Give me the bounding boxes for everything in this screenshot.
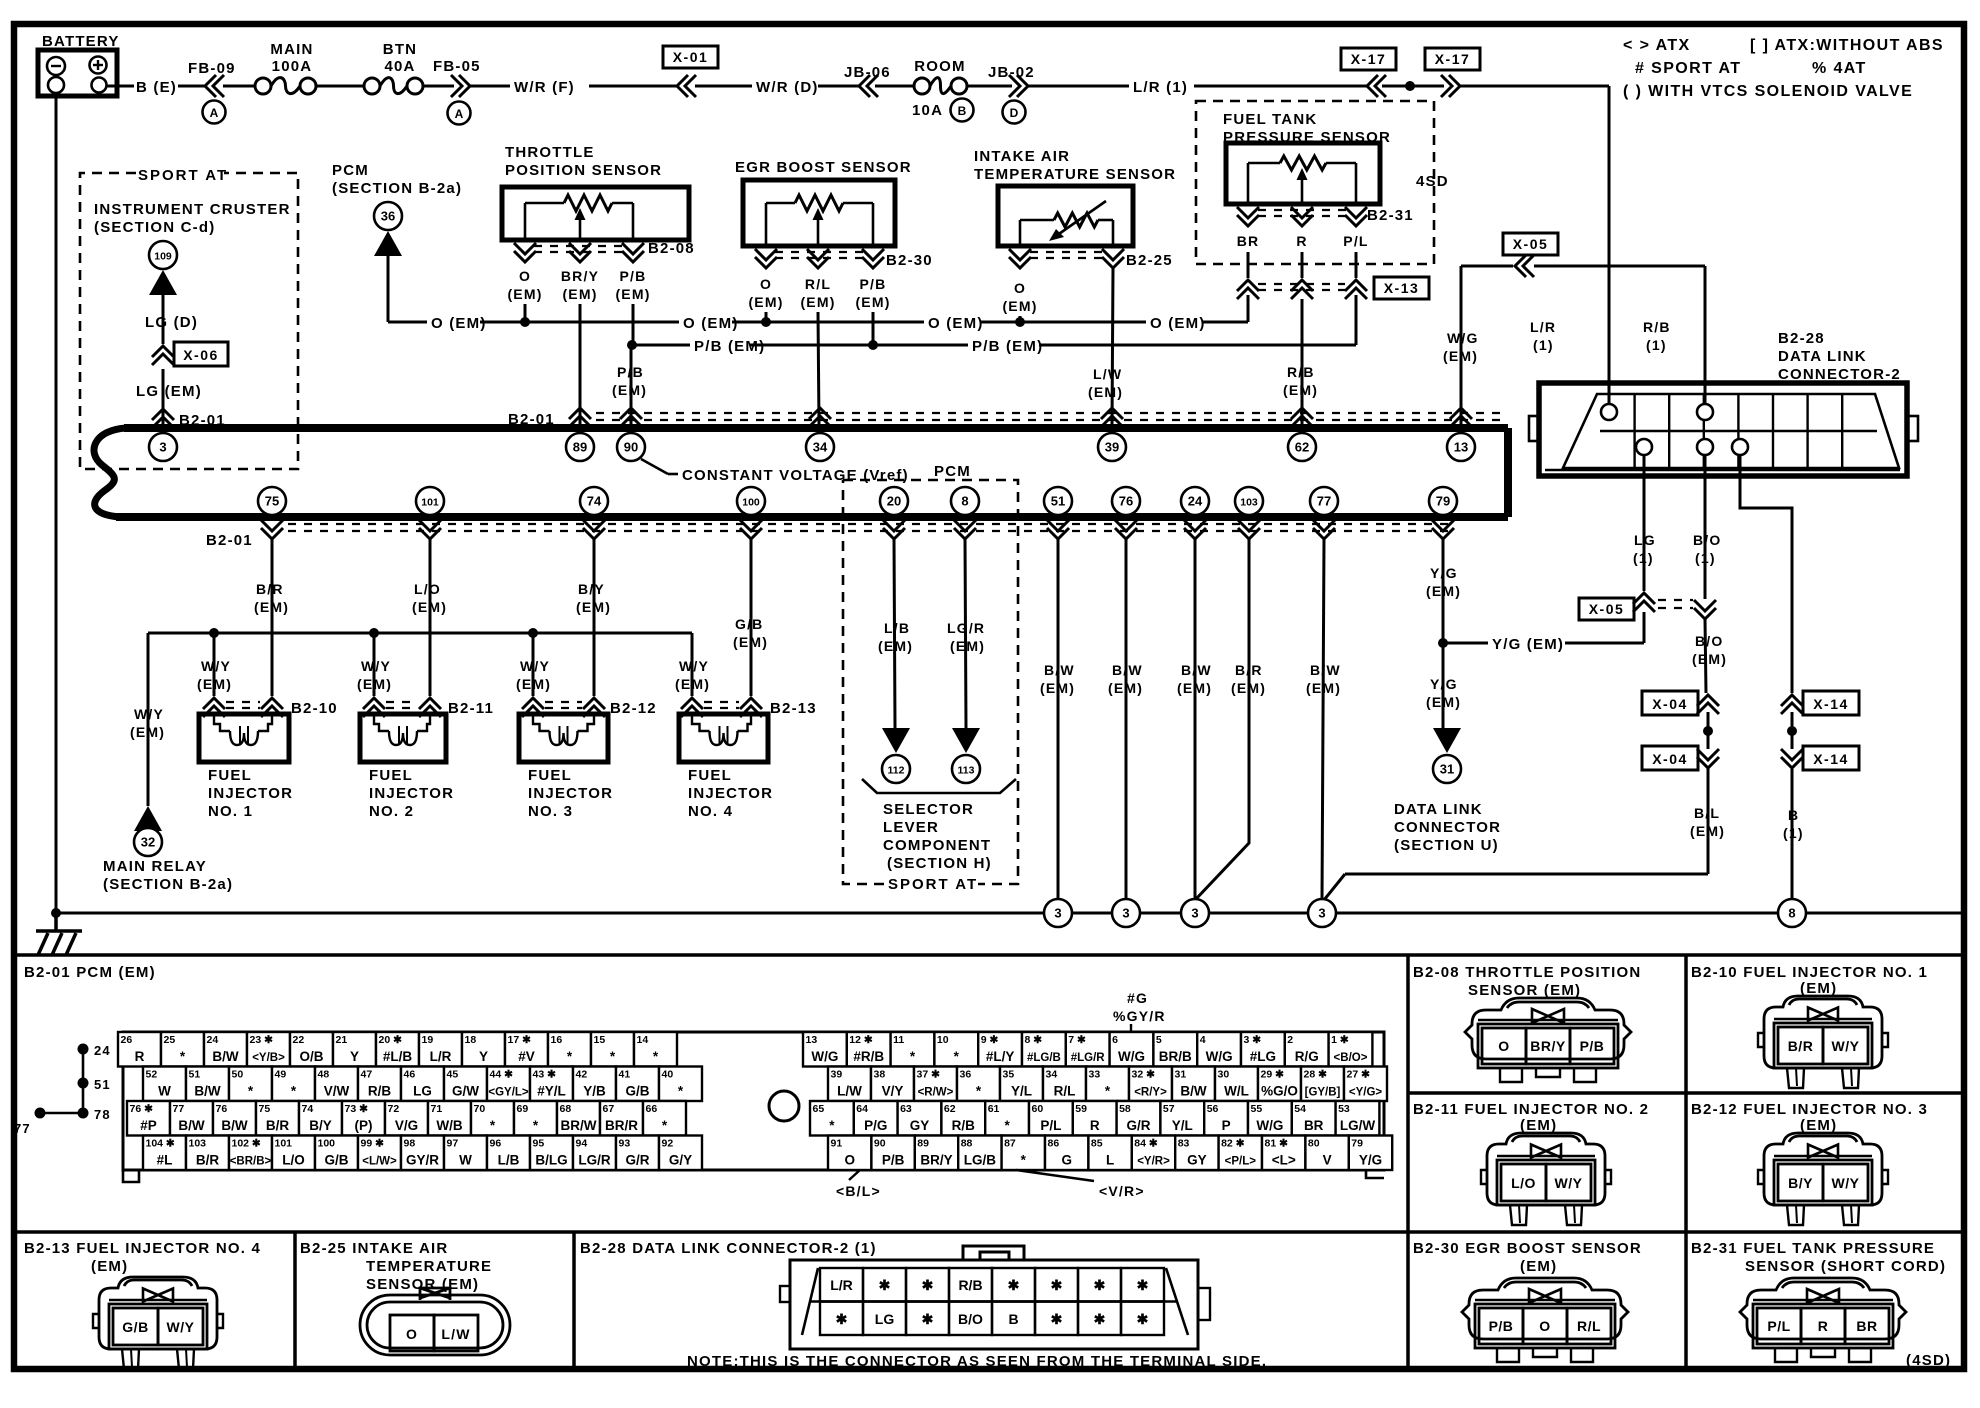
svg-text:74: 74 — [587, 494, 602, 509]
svg-text:B2-11: B2-11 — [448, 700, 494, 717]
svg-text:(EM): (EM) — [91, 1258, 128, 1275]
connector face B2-28 — [780, 1246, 1210, 1349]
annotation B/L — [836, 1170, 881, 1199]
wire P/B EGR — [872, 312, 875, 345]
svg-text:INJECTOR: INJECTOR — [208, 785, 293, 802]
svg-text:W/R (D): W/R (D) — [756, 79, 819, 96]
svg-text:35: 35 — [1003, 1069, 1015, 1081]
svg-text:11: 11 — [893, 1034, 904, 1046]
svg-text:(EM): (EM) — [1283, 382, 1318, 398]
svg-text:*: * — [248, 1084, 254, 1099]
svg-text:21: 21 — [336, 1034, 348, 1046]
svg-text:94: 94 — [576, 1138, 588, 1150]
svg-text:G/W: G/W — [452, 1084, 479, 1099]
fuel tank pressure sensor — [1223, 111, 1449, 204]
connector chevron lower bus — [583, 520, 605, 539]
svg-text:<R/Y>: <R/Y> — [1134, 1087, 1167, 1099]
svg-text:16: 16 — [551, 1034, 563, 1046]
svg-text:79: 79 — [1351, 1138, 1363, 1150]
fuel tank sensor pin labels — [1237, 233, 1369, 249]
svg-text:B2-28 DATA LINK CONNECTOR-2 (1: B2-28 DATA LINK CONNECTOR-2 (1) — [580, 1240, 877, 1257]
wire B(E) battery feed — [107, 79, 205, 96]
svg-text:X-01: X-01 — [673, 49, 709, 65]
svg-text:6: 6 — [1112, 1034, 1118, 1046]
svg-text:55: 55 — [1251, 1103, 1263, 1115]
svg-text:(1): (1) — [1783, 825, 1804, 841]
svg-text:B2-12 FUEL INJECTOR NO. 3: B2-12 FUEL INJECTOR NO. 3 — [1691, 1101, 1928, 1118]
svg-text:B/LG: B/LG — [535, 1153, 567, 1168]
pin B data link — [1732, 439, 1748, 455]
svg-text:L/W: L/W — [441, 1326, 470, 1342]
svg-text:37 ✱: 37 ✱ — [917, 1069, 941, 1081]
svg-text:Y/G: Y/G — [1430, 565, 1458, 581]
svg-text:(EM): (EM) — [1800, 980, 1837, 997]
ground node 3 d — [1308, 899, 1336, 927]
svg-text:77: 77 — [1317, 494, 1331, 509]
connector X-04 upper — [1642, 691, 1719, 715]
svg-text:W/B: W/B — [436, 1118, 462, 1133]
label B2-08 throttle position sensor — [1413, 964, 1641, 999]
pin row 52-40 — [143, 1067, 702, 1102]
svg-text:BR: BR — [1856, 1318, 1877, 1334]
svg-text:V/W: V/W — [324, 1084, 350, 1099]
pin row 91-79 — [828, 1136, 1392, 1171]
svg-text:W/Y: W/Y — [1832, 1038, 1860, 1054]
svg-text:FUEL: FUEL — [688, 767, 732, 784]
svg-text:B2-11 FUEL INJECTOR NO. 2: B2-11 FUEL INJECTOR NO. 2 — [1413, 1101, 1649, 1118]
wire B/L(EM) — [1324, 768, 1725, 900]
wire B/W(EM) pin — [1040, 539, 1075, 899]
svg-text:13: 13 — [806, 1034, 818, 1046]
arrow to PCM — [374, 231, 402, 256]
svg-text:LG/R: LG/R — [578, 1153, 610, 1168]
label B2-31 fuel tank pressure sensor — [1691, 1240, 1946, 1275]
pin row 13-1 — [803, 1032, 1372, 1067]
svg-text:L/W: L/W — [1093, 366, 1122, 382]
svg-text:R/B: R/B — [368, 1084, 392, 1099]
svg-text:(1): (1) — [1533, 337, 1554, 353]
svg-text:Y/L: Y/L — [1172, 1118, 1193, 1133]
connector X-17 first — [1341, 48, 1396, 97]
svg-text:B2-13 FUEL INJECTOR NO. 4: B2-13 FUEL INJECTOR NO. 4 — [24, 1240, 261, 1257]
svg-text:B2-12: B2-12 — [610, 700, 657, 717]
wire B/R(EM) from PCM — [254, 539, 289, 696]
ground node 3 a — [1044, 899, 1072, 927]
svg-text:L: L — [1106, 1153, 1114, 1168]
fuel injector NO. 3 — [519, 714, 613, 820]
annotation V/R — [1016, 1170, 1145, 1199]
node 109 instrument cluster — [149, 241, 177, 269]
PCM pin 89 — [566, 433, 594, 461]
svg-text:40: 40 — [662, 1069, 674, 1081]
svg-text:O (EM): O (EM) — [431, 315, 487, 332]
svg-text:NO. 3: NO. 3 — [528, 803, 573, 820]
svg-text:62: 62 — [944, 1103, 956, 1115]
svg-text:(EM): (EM) — [1520, 1258, 1557, 1275]
svg-text:76 ✱: 76 ✱ — [130, 1103, 154, 1115]
svg-text:98: 98 — [404, 1138, 416, 1150]
svg-text:✱: ✱ — [1051, 1311, 1063, 1327]
label CONSTANT VOLTAGE Vref — [641, 459, 909, 484]
svg-text:W/Y: W/Y — [520, 658, 550, 674]
svg-text:24: 24 — [94, 1043, 111, 1058]
svg-text:89: 89 — [573, 440, 587, 455]
svg-text:*: * — [662, 1118, 668, 1133]
svg-text:PCM: PCM — [934, 463, 971, 480]
svg-text:BR: BR — [1237, 233, 1260, 249]
svg-text:(EM): (EM) — [576, 599, 611, 615]
svg-text:65: 65 — [813, 1103, 825, 1115]
svg-text:SELECTOR: SELECTOR — [883, 801, 974, 818]
svg-text:B2-25: B2-25 — [1126, 252, 1173, 269]
pin R/B data link — [1697, 404, 1713, 420]
svg-text:112: 112 — [888, 765, 905, 777]
PCM pin 34 — [806, 433, 834, 461]
svg-text:LG/B: LG/B — [964, 1153, 996, 1168]
svg-text:79: 79 — [1436, 494, 1450, 509]
svg-text:#LG/B: #LG/B — [1027, 1052, 1061, 1064]
svg-text:34: 34 — [1046, 1069, 1058, 1081]
connector face B2-12 — [1758, 1133, 1888, 1225]
svg-text:30: 30 — [1218, 1069, 1230, 1081]
svg-text:P/B: P/B — [860, 276, 887, 292]
svg-text:60: 60 — [1032, 1103, 1044, 1115]
svg-text:X-14: X-14 — [1813, 751, 1849, 767]
connector B2-01 PCM pin grid — [123, 1032, 1384, 1170]
svg-text:81 ✱: 81 ✱ — [1265, 1138, 1289, 1150]
PCM pin 101 — [416, 487, 444, 515]
svg-text:POSITION SENSOR: POSITION SENSOR — [505, 162, 662, 179]
svg-text:<Y/R>: <Y/R> — [1137, 1156, 1170, 1168]
fuse BTN 40A — [364, 41, 423, 94]
svg-text:%G/O: %G/O — [1261, 1084, 1298, 1099]
svg-text:LG/R: LG/R — [947, 620, 985, 636]
connector chevron lower bus — [1238, 520, 1260, 539]
svg-text:L/R: L/R — [430, 1049, 452, 1064]
svg-text:PCM: PCM — [332, 162, 369, 179]
svg-text:X-05: X-05 — [1589, 601, 1625, 617]
svg-text:BTN: BTN — [383, 41, 417, 58]
svg-text:R/B: R/B — [958, 1277, 982, 1293]
connector chevron upper bus — [1101, 408, 1123, 427]
connector X-14 lower — [1781, 746, 1859, 770]
svg-text:74: 74 — [302, 1103, 314, 1115]
svg-text:(EM): (EM) — [516, 676, 551, 692]
svg-text:#P: #P — [140, 1118, 157, 1133]
wire B/W(EM) pin — [1108, 539, 1143, 899]
svg-text:O (EM): O (EM) — [928, 315, 984, 332]
svg-text:<GY/L>: <GY/L> — [488, 1087, 529, 1099]
svg-text:*: * — [976, 1084, 982, 1099]
svg-text:B: B — [1008, 1311, 1018, 1327]
svg-text:P/G: P/G — [864, 1118, 887, 1133]
annotation G GY/R — [1113, 990, 1166, 1032]
svg-text:83: 83 — [1178, 1138, 1190, 1150]
connector chevron lower bus — [883, 520, 905, 539]
svg-text:15: 15 — [594, 1034, 606, 1046]
svg-text:(1): (1) — [1633, 550, 1654, 566]
junction node X-14 — [1787, 712, 1797, 749]
svg-text:B2-01: B2-01 — [508, 411, 555, 428]
svg-text:B/W: B/W — [1181, 662, 1212, 678]
selector lever component label — [862, 779, 1016, 872]
connector face B2-11 — [1481, 1133, 1611, 1225]
svg-text:B: B — [958, 104, 967, 118]
pin row 39-27 — [828, 1067, 1387, 1102]
svg-text:W/R (F): W/R (F) — [514, 79, 575, 96]
EGR boost sensor — [735, 159, 912, 246]
svg-text:86: 86 — [1048, 1138, 1060, 1150]
svg-text:X-17: X-17 — [1351, 51, 1387, 67]
connector face B2-30 — [1462, 1278, 1628, 1362]
svg-text:B/R: B/R — [256, 581, 284, 597]
svg-text:O: O — [1539, 1318, 1550, 1334]
svg-text:(EM): (EM) — [130, 724, 165, 740]
connector FB-09 — [188, 60, 236, 124]
svg-text:W/Y: W/Y — [1832, 1175, 1860, 1191]
svg-text:✱: ✱ — [1094, 1311, 1106, 1327]
PCM pin 76 — [1112, 487, 1140, 515]
svg-text:B/R: B/R — [1235, 662, 1263, 678]
svg-text:BR/B: BR/B — [1159, 1049, 1192, 1064]
svg-text:(EM): (EM) — [1306, 680, 1341, 696]
wire W/Y injector 2 — [357, 633, 392, 696]
svg-text:61: 61 — [988, 1103, 1000, 1115]
svg-text:32: 32 — [141, 835, 155, 850]
svg-text:L/W: L/W — [837, 1084, 862, 1099]
svg-text:*: * — [490, 1118, 496, 1133]
wire O IAT — [1019, 316, 1022, 322]
dashed links lower bus — [288, 524, 1455, 531]
connector JB-06 — [844, 64, 891, 97]
svg-text:75: 75 — [265, 494, 279, 509]
svg-text:< > ATX: < > ATX — [1623, 37, 1691, 54]
svg-text:NO. 2: NO. 2 — [369, 803, 414, 820]
svg-text:54: 54 — [1294, 1103, 1306, 1115]
svg-text:Y/L: Y/L — [1011, 1084, 1032, 1099]
connector JB-02 — [988, 64, 1035, 124]
svg-text:31: 31 — [1175, 1069, 1187, 1081]
svg-text:( ) WITH VTCS SOLENOID VALVE: ( ) WITH VTCS SOLENOID VALVE — [1623, 83, 1913, 100]
svg-text:B2-25 INTAKE AIR: B2-25 INTAKE AIR — [300, 1240, 448, 1257]
label R/B(1) — [1643, 319, 1671, 353]
svg-text:W/G: W/G — [1256, 1118, 1283, 1133]
svg-text:*: * — [610, 1049, 616, 1064]
svg-text:40A: 40A — [384, 58, 415, 75]
svg-text:B2-13: B2-13 — [770, 700, 817, 717]
connector symbol B2-01 pin3 — [152, 409, 226, 429]
svg-text:P/L: P/L — [1343, 233, 1368, 249]
wires into X-13 — [1248, 252, 1356, 278]
wire Y/G(EM) link — [1443, 612, 1644, 653]
PCM pin 20 — [880, 487, 908, 515]
svg-text:78: 78 — [94, 1107, 111, 1122]
svg-text:59: 59 — [1075, 1103, 1087, 1115]
intake air temperature sensor — [974, 148, 1176, 246]
svg-text:TEMPERATURE SENSOR: TEMPERATURE SENSOR — [974, 166, 1176, 183]
svg-text:(EM): (EM) — [1520, 1117, 1557, 1134]
svg-text:GY/R: GY/R — [406, 1153, 439, 1168]
svg-text:BR/Y: BR/Y — [561, 268, 599, 284]
fuel tank pressure sensor dashed box — [1196, 101, 1434, 264]
svg-text:101: 101 — [275, 1138, 293, 1150]
svg-text:(EM): (EM) — [950, 638, 985, 654]
svg-text:102 ✱: 102 ✱ — [232, 1138, 261, 1150]
node 31 data link connector — [1433, 755, 1461, 783]
pin B/O data link — [1697, 439, 1713, 455]
arrow to instrument cluster — [149, 270, 177, 295]
svg-text:Y/G (EM): Y/G (EM) — [1492, 636, 1564, 653]
svg-text:100: 100 — [318, 1138, 336, 1150]
connector chevron lower bus — [1432, 520, 1454, 539]
svg-text:12 ✱: 12 ✱ — [849, 1034, 873, 1046]
svg-text:<P/L>: <P/L> — [1225, 1156, 1257, 1168]
svg-text:64: 64 — [856, 1103, 868, 1115]
label B2-30 EGR boost sensor — [1413, 1240, 1642, 1275]
svg-text:85: 85 — [1091, 1138, 1103, 1150]
svg-text:48: 48 — [318, 1069, 330, 1081]
wire L/W to pin 39 — [1088, 268, 1123, 425]
svg-text:LG: LG — [413, 1084, 432, 1099]
svg-text:73 ✱: 73 ✱ — [345, 1103, 369, 1115]
svg-text:V: V — [1323, 1153, 1332, 1168]
svg-text:#LG/R: #LG/R — [1071, 1052, 1106, 1064]
svg-text:B2-31: B2-31 — [1367, 207, 1414, 224]
svg-text:51: 51 — [189, 1069, 201, 1081]
PCM pin 90 — [617, 433, 645, 461]
svg-text:39: 39 — [1105, 440, 1119, 455]
svg-text:BATTERY: BATTERY — [42, 33, 120, 50]
svg-text:B2-30 EGR BOOST SENSOR: B2-30 EGR BOOST SENSOR — [1413, 1240, 1642, 1257]
wire to JB-02 — [966, 85, 1012, 88]
data link connector label — [1394, 801, 1501, 854]
svg-text:96: 96 — [490, 1138, 502, 1150]
svg-text:R/B: R/B — [952, 1118, 976, 1133]
svg-text:✱: ✱ — [836, 1311, 848, 1327]
svg-text:77: 77 — [14, 1121, 31, 1136]
junction node X-04 — [1703, 712, 1713, 749]
svg-text:B/Y: B/Y — [578, 581, 605, 597]
svg-text:68: 68 — [560, 1103, 572, 1115]
connector chevron upper bus — [809, 408, 831, 427]
wire B(1) from data link — [1740, 455, 1792, 693]
svg-text:G/R: G/R — [1126, 1118, 1150, 1133]
svg-text:B/Y: B/Y — [309, 1118, 332, 1133]
svg-text:8: 8 — [1788, 906, 1795, 921]
svg-text:BR/Y: BR/Y — [1530, 1038, 1566, 1054]
svg-text:*: * — [180, 1049, 186, 1064]
svg-text:(EM): (EM) — [1426, 694, 1461, 710]
svg-text:(EM): (EM) — [357, 676, 392, 692]
svg-text:%GY/R: %GY/R — [1113, 1008, 1166, 1024]
wire G/B(EM) from PCM — [733, 539, 768, 696]
EGR sensor pin labels — [748, 276, 890, 310]
connector face B2-10 — [1758, 996, 1888, 1088]
svg-text:SENSOR (EM): SENSOR (EM) — [1468, 982, 1581, 999]
svg-text:✱: ✱ — [922, 1311, 934, 1327]
svg-text:95: 95 — [533, 1138, 545, 1150]
svg-text:FB-09: FB-09 — [188, 60, 236, 77]
svg-text:93: 93 — [619, 1138, 631, 1150]
table hole — [769, 1091, 799, 1121]
wire B/W(EM) pin — [1306, 539, 1341, 899]
svg-text:SPORT AT: SPORT AT — [888, 876, 978, 893]
svg-text:FUEL: FUEL — [528, 767, 572, 784]
wire to ROOM fuse — [875, 85, 914, 88]
wire O(EM) from PCM — [388, 256, 427, 322]
svg-text:14: 14 — [637, 1034, 649, 1046]
wire O(EM) rail — [431, 295, 1248, 332]
svg-text:27 ✱: 27 ✱ — [1347, 1069, 1371, 1081]
svg-text:*: * — [567, 1049, 573, 1064]
svg-text:B/W: B/W — [212, 1049, 239, 1064]
svg-text:*: * — [533, 1118, 539, 1133]
svg-text:(SECTION C-d): (SECTION C-d) — [94, 219, 215, 236]
svg-text:8: 8 — [961, 494, 968, 509]
svg-text:B/W: B/W — [1112, 662, 1143, 678]
connector detail section frame — [14, 955, 1964, 1369]
svg-text:R: R — [135, 1049, 145, 1064]
svg-text:B/W: B/W — [1044, 662, 1075, 678]
svg-text:B/W: B/W — [1180, 1084, 1207, 1099]
wire R/L to pin 34 — [818, 312, 819, 425]
svg-text:L/O: L/O — [414, 581, 441, 597]
svg-text:#Y/L: #Y/L — [537, 1084, 566, 1099]
svg-text:✱: ✱ — [922, 1277, 934, 1293]
svg-text:*: * — [1105, 1084, 1111, 1099]
node 113 selector lever — [952, 755, 980, 783]
svg-text:<Y/B>: <Y/B> — [252, 1052, 285, 1064]
svg-text:B/W: B/W — [221, 1118, 248, 1133]
svg-text:L/O: L/O — [1511, 1175, 1536, 1191]
throttle position sensor — [502, 144, 689, 240]
connector chevron lower bus — [261, 520, 283, 539]
svg-text:B2-10 FUEL INJECTOR NO. 1: B2-10 FUEL INJECTOR NO. 1 — [1691, 964, 1928, 981]
fuse MAIN 100A — [255, 41, 316, 94]
svg-text:69: 69 — [517, 1103, 529, 1115]
connector X-17 second — [1425, 48, 1480, 97]
svg-text:INJECTOR: INJECTOR — [369, 785, 454, 802]
svg-text:(EM): (EM) — [1692, 651, 1727, 667]
PCM pin 3 — [149, 433, 177, 461]
dashed box SPORT AT instrument cluster — [80, 173, 298, 469]
PCM pin 74 — [580, 487, 608, 515]
table notch right — [1366, 1170, 1384, 1178]
PCM pin 100 — [737, 487, 765, 515]
svg-text:R/B: R/B — [1287, 364, 1315, 380]
connector X-01 — [663, 46, 718, 97]
connector chevron lower bus — [419, 520, 441, 539]
svg-text:90: 90 — [624, 440, 638, 455]
svg-text:3: 3 — [1054, 906, 1061, 921]
svg-text:W/G: W/G — [1118, 1049, 1145, 1064]
svg-text:47: 47 — [361, 1069, 373, 1081]
svg-text:LG (EM): LG (EM) — [136, 383, 202, 400]
svg-text:Y: Y — [479, 1049, 488, 1064]
connector chevron lower bus — [1115, 520, 1137, 539]
svg-text:<L>: <L> — [1272, 1153, 1296, 1168]
svg-text:X-04: X-04 — [1652, 751, 1688, 767]
svg-text:8 ✱: 8 ✱ — [1025, 1034, 1043, 1046]
wire W/G(EM) pin13 to X-05 — [1443, 266, 1513, 425]
svg-text:36: 36 — [960, 1069, 972, 1081]
connector chevron lower bus — [740, 520, 762, 539]
svg-text:L/B: L/B — [884, 620, 910, 636]
svg-text:51: 51 — [1051, 494, 1065, 509]
connector X-04 lower — [1642, 746, 1719, 770]
PCM pin 77 — [1310, 487, 1338, 515]
wire B/W(EM) pin — [1177, 539, 1212, 899]
